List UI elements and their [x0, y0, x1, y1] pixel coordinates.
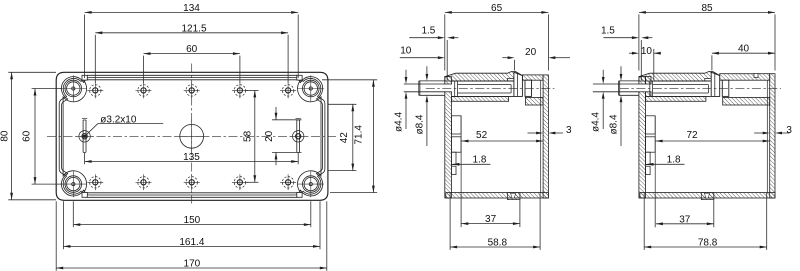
dimension 60 left [34, 89, 36, 185]
section under-flange band right (hatched) [525, 97, 543, 105]
svg-text:134: 134 [183, 3, 200, 14]
svg-text:37: 37 [485, 214, 497, 225]
section dimension 10 [653, 49, 655, 80]
svg-text:60: 60 [186, 44, 198, 55]
section dimension 37 extension lines [654, 193, 656, 227]
dimension 58 extension lines [246, 89, 259, 91]
section screw shaft o4.4 lines [404, 83, 445, 85]
section label 1.8 leader [647, 163, 685, 165]
section screw hole gap in left wall [638, 84, 651, 92]
lid outline 2 with boss wrap r11.9 [61, 136, 192, 196]
outer box edge [56, 136, 192, 200]
center hole [180, 124, 204, 148]
svg-text:58.8: 58.8 [488, 238, 508, 249]
svg-text:170: 170 [184, 259, 201, 270]
dimension 20 slot length [275, 107, 277, 120]
lid outline with boss wrap r10.4 [59, 75, 192, 136]
section centerline [620, 88, 781, 90]
section dimension 20 extension line [514, 60, 516, 71]
section dimension 78.8 extension lines [643, 193, 645, 250]
svg-text:20: 20 [264, 130, 275, 142]
section left wall (hatched) [445, 77, 452, 198]
svg-text:10: 10 [641, 46, 653, 57]
lid screw tab [297, 193, 302, 198]
section lid and flange band with boss bump roof (hatched) [445, 72, 522, 82]
inner wall outline with boss scoop [63, 80, 192, 137]
section screw hole gap in left wall [444, 84, 452, 92]
section pcb guide block B [646, 137, 656, 152]
section right flange band (hatched) [720, 74, 770, 81]
section screw collar o8.4 lines [419, 80, 445, 82]
corner screw boss [303, 80, 320, 97]
section dimension 78.8 [644, 246, 767, 248]
section pcb guide block C [646, 152, 651, 164]
section bottom band (hatched) [640, 193, 775, 198]
label o3.2x10 leader [98, 123, 163, 125]
section dimension o4.4 [405, 70, 407, 77]
section dimension 37 [461, 223, 520, 225]
svg-text:ø4.4: ø4.4 [591, 112, 602, 132]
left view corner bottom-right [192, 136, 328, 200]
section under-flange band (hatched) [646, 96, 706, 101]
section dimension 65 [445, 11, 549, 13]
svg-text:37: 37 [679, 214, 691, 225]
dimension 42 extension lines [328, 103, 357, 105]
dimension 42 [352, 104, 354, 170]
section dimension 72 [656, 140, 770, 142]
section wall top boss (hatched) [646, 77, 652, 97]
section right wall inner ledge line [766, 80, 768, 192]
section under-flange band right (hatched) [723, 97, 770, 105]
section boss block [711, 72, 720, 96]
lid screw tab [82, 193, 87, 198]
svg-text:3: 3 [786, 125, 792, 136]
svg-text:ø3.2x10: ø3.2x10 [100, 114, 137, 125]
section dimension 3 wall thickness [528, 132, 537, 134]
svg-text:65: 65 [491, 3, 503, 14]
vertical centerline [191, 64, 193, 204]
corner screw boss [65, 176, 82, 193]
dimension 170 [56, 267, 327, 269]
dimension 121.5 [95, 32, 288, 34]
mounting holes top and bottom rows [90, 85, 101, 96]
svg-text:3: 3 [566, 125, 572, 136]
corner screw boss [65, 80, 82, 97]
section tube left end caps [649, 81, 651, 96]
dimension 60 top [144, 53, 240, 55]
lid outline 2 with boss wrap r11.9 [192, 136, 323, 196]
dimension 170 extension lines [55, 201, 57, 270]
svg-text:58: 58 [243, 130, 254, 142]
svg-text:1.5: 1.5 [421, 26, 435, 37]
dimension 161.4 extension lines [62, 201, 64, 249]
section lid and flange band with boss bump roof (hatched) [639, 72, 719, 82]
inner wall outline with boss scoop [192, 136, 321, 193]
section boss nut block [722, 80, 729, 96]
section label 1.8 leader [452, 163, 490, 165]
left view corner top-left [56, 72, 192, 136]
dimension 134 [85, 11, 299, 13]
svg-text:1.8: 1.8 [473, 155, 487, 166]
section dimension 1.5 [446, 40, 448, 74]
side slots o3.2x10 [82, 120, 84, 152]
svg-text:40: 40 [738, 44, 750, 55]
svg-text:1.5: 1.5 [601, 26, 615, 37]
svg-text:71.4: 71.4 [354, 125, 365, 145]
horizontal centerline [47, 135, 336, 137]
dimension 150 extension lines [72, 201, 74, 227]
section boss nut block [525, 80, 532, 96]
dimension 135 [85, 161, 299, 163]
section dimension 40 [712, 52, 775, 54]
section screw shaft o4.4 lines [593, 83, 639, 85]
svg-text:150: 150 [184, 215, 201, 226]
section tube bore [653, 84, 709, 86]
lid outline with boss wrap r10.4 [192, 136, 325, 197]
section pcb guide block D [451, 166, 456, 174]
dimension 134 extension lines [84, 15, 86, 79]
svg-text:ø4.4: ø4.4 [393, 112, 404, 132]
section dimension o8.4 [426, 66, 428, 74]
section screw collar o8.4 lines [619, 80, 639, 82]
lid screw tab [297, 75, 302, 80]
dimension 135 extension lines [84, 153, 86, 165]
section dimension 37 extension lines [460, 193, 462, 227]
dimension 60 top extension lines [143, 56, 145, 83]
section under-flange band (hatched) [451, 96, 508, 101]
section dimension 85 extension lines [638, 14, 640, 70]
section centerline [426, 88, 555, 90]
section right wall inner ledge line [540, 80, 542, 192]
outer box edge [192, 136, 328, 200]
svg-text:42: 42 [339, 132, 350, 144]
section right wall (hatched) [543, 75, 548, 198]
section left wall (hatched) [639, 77, 646, 198]
section pcb guide block D [646, 166, 651, 174]
dimension 121.5 extension lines [94, 35, 96, 83]
section drain boss under floor (hatched) [701, 193, 714, 200]
section dimension 3 wall thickness [754, 132, 763, 134]
section drain boss under floor (hatched) [507, 193, 520, 200]
section pcb guide face line [460, 116, 462, 193]
svg-text:52: 52 [476, 130, 488, 141]
section pcb guide block A [646, 116, 656, 134]
svg-text:161.4: 161.4 [179, 237, 204, 248]
lid outline 2 with boss wrap r11.9 [192, 77, 323, 137]
svg-text:ø8.4: ø8.4 [414, 114, 425, 134]
section dimension 37 [656, 223, 714, 225]
inner wall outline with boss scoop [63, 136, 192, 193]
corner screw boss [303, 176, 320, 193]
lid screw tab [82, 75, 87, 80]
svg-text:78.8: 78.8 [698, 238, 718, 249]
lid outline 2 with boss wrap r11.9 [61, 77, 192, 137]
section lid skirt line [446, 74, 448, 80]
svg-text:80: 80 [0, 130, 11, 142]
dimension 71.4 [372, 80, 374, 193]
section dimension 58.8 [450, 246, 540, 248]
dimension 80 [11, 72, 13, 200]
section drain boss notch [705, 193, 710, 198]
dimension 71.4 extension lines [322, 79, 377, 81]
section dimension 20 [502, 57, 508, 59]
section screw boss tube [651, 80, 711, 82]
section dimension 65 extension lines [444, 14, 446, 70]
section screw boss tube [451, 80, 513, 82]
svg-text:20: 20 [525, 47, 537, 58]
svg-text:60: 60 [22, 130, 33, 142]
section tube left end caps [454, 81, 456, 96]
section dimension 40 extension line [711, 55, 713, 70]
outer box edge [56, 72, 192, 136]
section pcb guide block B [451, 137, 461, 152]
section dimension 58.8 extension lines [449, 193, 451, 250]
section band notch right view [754, 73, 758, 77]
dimension 60 left extension lines [32, 88, 62, 90]
section dimension 10 [400, 57, 438, 59]
dimension 80 extension lines [8, 71, 56, 73]
section right flange band (hatched) [522, 75, 543, 80]
left view corner bottom-left [56, 136, 192, 200]
lid outline with boss wrap r10.4 [192, 75, 325, 136]
svg-text:85: 85 [701, 3, 713, 14]
dimension 161.4 [63, 245, 320, 247]
svg-text:72: 72 [686, 130, 698, 141]
section right wall (hatched) [770, 74, 775, 198]
outer box edge [192, 72, 328, 136]
svg-text:ø8.4: ø8.4 [608, 114, 619, 134]
svg-text:121.5: 121.5 [181, 23, 206, 34]
section pcb guide block C [451, 152, 456, 164]
section bottom band (hatched) [446, 193, 549, 198]
lid outline with boss wrap r10.4 [59, 136, 192, 197]
svg-text:135: 135 [183, 152, 200, 163]
dimension 20 extension lines [272, 119, 302, 121]
svg-text:1.8: 1.8 [667, 155, 681, 166]
section pcb guide face line [654, 116, 656, 193]
section dimension 52 [462, 140, 544, 142]
section dimension o8.4 [620, 66, 622, 74]
dimension 58 [254, 90, 256, 182]
section dimension o4.4 [602, 70, 604, 77]
section dimension 85 [639, 11, 775, 13]
section tube bore [458, 84, 512, 86]
section drain boss notch [511, 193, 516, 198]
section dimension 1.5 [640, 40, 642, 74]
section boss block [514, 72, 523, 96]
section pcb guide block A [451, 116, 461, 134]
inner wall outline with boss scoop [192, 80, 321, 137]
svg-text:10: 10 [400, 46, 412, 57]
section lid skirt line [640, 74, 642, 80]
dimension 150 [73, 224, 310, 226]
left view corner top-right [192, 72, 328, 136]
